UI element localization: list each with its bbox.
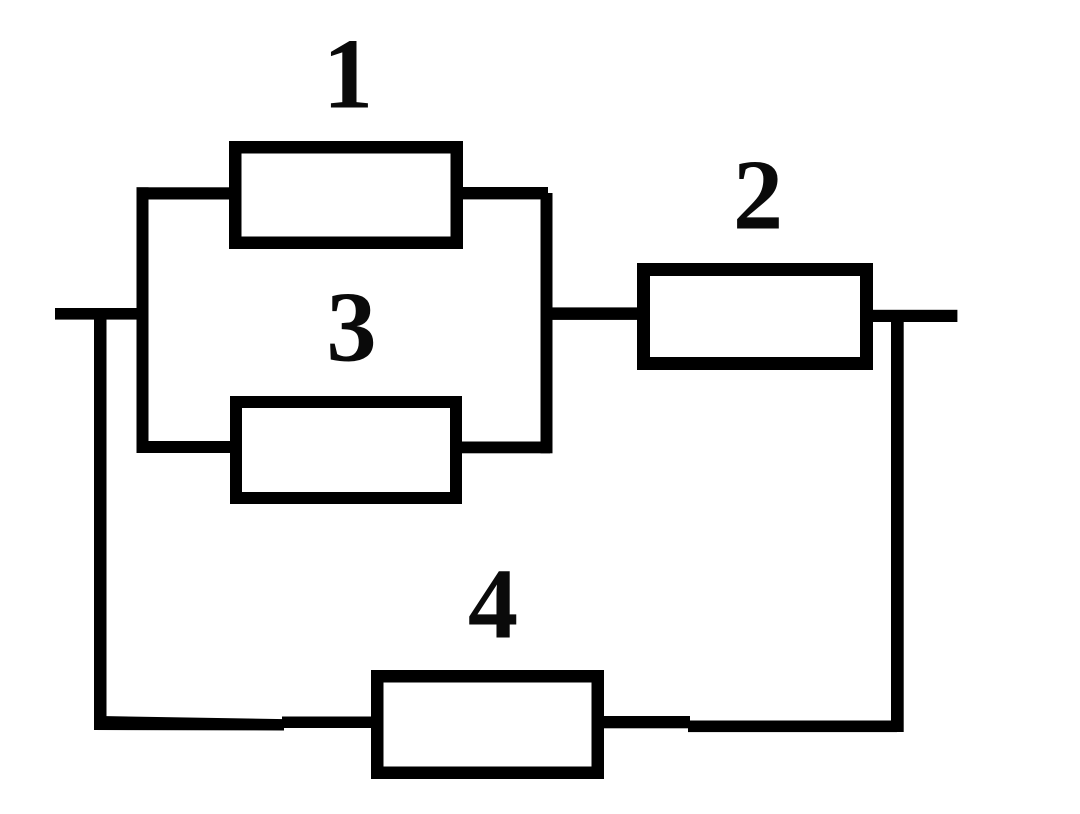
wire: R4 right lead segment <box>604 716 690 728</box>
resistor 4 <box>377 676 598 773</box>
svg-text:1: 1 <box>323 18 373 130</box>
svg-text:4: 4 <box>468 548 518 660</box>
wire: middle link from parallel pair to R2 <box>546 307 643 320</box>
wire: R4 left lead segment <box>282 717 372 729</box>
svg-text:2: 2 <box>733 139 783 251</box>
svg-text:3: 3 <box>326 271 376 383</box>
resistor 3 <box>236 402 456 498</box>
wire: right vertical of parallel pair (joins R1 and R3 right leads) <box>541 193 553 453</box>
wire: R1 right lead <box>463 187 548 199</box>
wire: R1 left lead <box>137 187 230 199</box>
wire: left outer vertical (down to bottom branch) <box>94 308 107 730</box>
wire: bottom left horizontal (left outer vertical to R4), slightly sloped <box>94 716 284 731</box>
resistor 2 <box>644 270 867 364</box>
wire: left vertical of parallel pair (joins R1 and R3 left leads) <box>137 187 149 453</box>
wire: left external terminal stub <box>55 308 137 320</box>
wire: right outer vertical (down to bottom branch) <box>891 310 904 732</box>
wire: R3 right lead <box>462 442 550 454</box>
wire: bottom right horizontal (R4 to right outer vertical) <box>688 721 897 733</box>
wire: R2 right lead / right external terminal stub <box>873 310 957 322</box>
resistor 1 <box>235 147 457 243</box>
wire: R3 left lead <box>137 441 231 453</box>
